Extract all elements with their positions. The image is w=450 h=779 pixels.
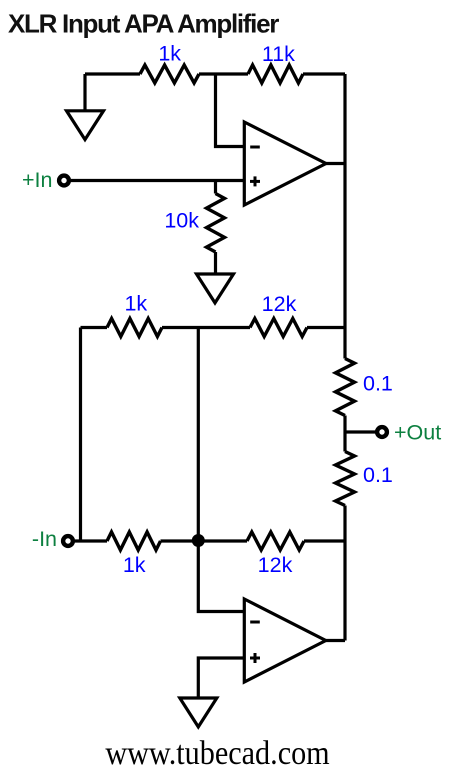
wire: +In to op-amp U1 non-inverting input: [71, 179, 244, 182]
wire: right bus upper (11k junction down to first 0.1): [343, 74, 346, 359]
wire: -In to R8: [75, 539, 107, 542]
wire: middle vertical from middle rail down to junction: [197, 328, 200, 542]
resistor R9 12k (-In row): [247, 532, 304, 550]
wire: op-amp U2 output to bus: [326, 639, 345, 642]
node -In terminal circle: [63, 536, 73, 546]
ground symbol (below U2): [180, 698, 217, 727]
ground symbol (below 10k): [197, 274, 234, 303]
wire: 10k top lead: [214, 181, 217, 194]
wire: left bus vertical: [79, 328, 82, 542]
node +Out terminal circle: [377, 427, 387, 437]
wire: 10k bottom lead: [214, 252, 217, 274]
resistor R1 1k (top rail): [140, 65, 199, 83]
wire: +Out stub: [345, 430, 377, 433]
svg-text:XLR Input APA Amplifier: XLR Input APA Amplifier: [8, 9, 279, 39]
node +In terminal circle: [59, 176, 69, 186]
wire: middle rail left segment: [81, 326, 108, 329]
svg-text:11k: 11k: [262, 42, 295, 66]
wire: ground stub from top rail: [83, 74, 86, 111]
svg-text:10k: 10k: [164, 209, 199, 233]
svg-text:+Out: +Out: [394, 421, 441, 445]
wire: -In row right segment to bus: [304, 539, 345, 542]
svg-text:1k: 1k: [158, 42, 181, 66]
op-amp U1: [244, 122, 326, 205]
wire: middle rail right segment to bus: [307, 326, 345, 329]
svg-text:1k: 1k: [123, 553, 146, 577]
wire: op-amp U2 non-inverting input to ground stub: [198, 658, 244, 698]
resistor R6 0.1 (upper output): [336, 359, 355, 416]
wire: right bus lower (to op-amp U2 output): [343, 506, 346, 641]
svg-text:-In: -In: [32, 527, 57, 551]
resistor R7 0.1 (lower output): [336, 452, 355, 506]
wire: bus between 0.1 resistors: [343, 416, 346, 452]
wire: op-amp U1 output: [326, 162, 345, 165]
wire: top rail right segment to bus: [303, 72, 345, 75]
wire: inverting input drop from R1/R2 junction to op-amp U1: [216, 74, 245, 147]
ground symbol (top left): [67, 111, 104, 140]
wire: top rail left segment: [85, 72, 140, 75]
wire: top rail middle segment: [199, 72, 248, 75]
resistor R4 1k (middle rail): [107, 319, 162, 337]
svg-text:0.1: 0.1: [363, 372, 393, 396]
svg-text:1k: 1k: [124, 292, 147, 316]
svg-text:www.tubecad.com: www.tubecad.com: [105, 733, 329, 771]
wire: middle rail center segment: [162, 326, 250, 329]
svg-text:+In: +In: [22, 168, 53, 192]
junction node (middle): [192, 534, 205, 547]
wire: -In row middle segment: [161, 539, 248, 542]
op-amp U2: [244, 599, 325, 682]
svg-text:12k: 12k: [258, 553, 293, 577]
resistor R5 12k (middle rail): [250, 319, 307, 337]
resistor R8 1k (-In row): [107, 532, 161, 550]
wire: junction down to op-amp U2 inverting input: [198, 541, 244, 612]
svg-text:12k: 12k: [262, 292, 297, 316]
resistor R3 10k (to ground): [207, 194, 225, 253]
svg-text:0.1: 0.1: [363, 463, 393, 487]
resistor R2 11k (feedback): [248, 65, 303, 83]
